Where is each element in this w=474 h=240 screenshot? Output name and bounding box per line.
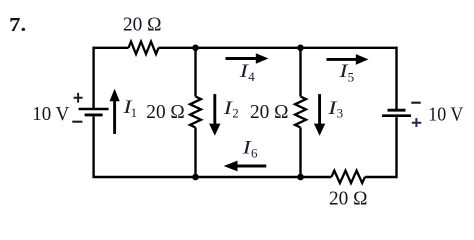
current arrow I4 (right) [226,53,269,64]
plus sign (right battery) [412,118,422,127]
battery B1 10V long plate (+) [79,108,109,111]
current arrow I1 (up) [110,89,120,134]
wire right side lower (battery to bottom) [395,117,397,178]
svg-text:20 Ω: 20 Ω [250,101,289,123]
svg-text:7.: 7. [9,14,26,36]
minus sign (right battery) [411,102,421,104]
svg-text:10 V: 10 V [428,104,463,126]
node dot top-left junction [192,45,199,52]
resistor 20 Ohm (top branch) [129,42,159,54]
node dot top-right junction [297,45,304,52]
node dot bottom-right junction [297,174,304,181]
wire top-middle segment [159,47,397,49]
svg-text:6: 6 [251,145,258,160]
svg-text:3: 3 [337,106,344,121]
wire right side upper (to battery) [395,47,397,109]
svg-text:4: 4 [248,69,255,84]
battery B2 10V short plate (-) [388,109,406,112]
plus sign (left battery) [74,93,83,103]
minus sign (left battery) [72,121,82,123]
battery B2 10V long plate (+) [382,114,411,117]
resistor 20 Ohm (middle branch 2) [295,97,306,128]
svg-text:20 Ω: 20 Ω [146,101,185,123]
wire middle branch 1 lower [194,128,196,178]
current arrow I6 (left) [224,161,267,172]
wire bottom-left segment [94,176,332,178]
wire middle branch 2 upper [299,48,301,97]
wire left side upper (to battery) [92,47,94,108]
resistor 20 Ohm (bottom branch) [332,171,366,184]
wire left side lower (battery to bottom) [92,116,94,178]
node dot bottom-left junction [192,174,199,181]
current arrow I2 (down) [209,94,220,136]
svg-text:5: 5 [348,70,355,85]
svg-text:1: 1 [131,105,138,120]
current arrow I5 (right) [327,54,369,65]
wire top-left segment [94,47,129,49]
svg-text:20 Ω: 20 Ω [329,188,368,210]
wire bottom-right segment [365,176,397,178]
current arrow I3 (down) [314,94,325,136]
svg-text:2: 2 [232,106,239,121]
svg-text:10 V: 10 V [32,103,70,125]
battery B1 10V short plate (-) [85,113,103,116]
svg-text:20 Ω: 20 Ω [123,14,162,36]
wire middle branch 2 lower [299,128,301,178]
wire middle branch 1 upper [194,48,196,97]
resistor 20 Ohm (middle branch 1) [190,97,201,128]
